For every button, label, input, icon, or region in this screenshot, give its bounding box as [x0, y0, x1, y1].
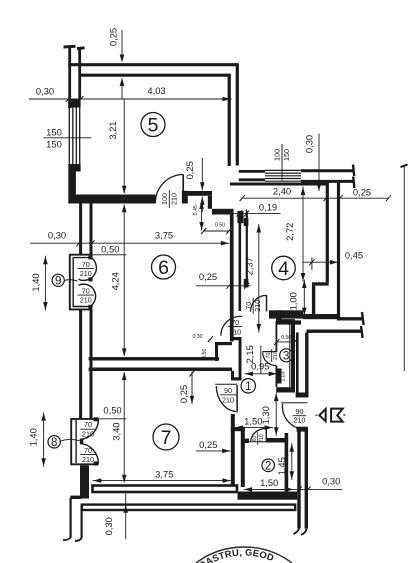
svg-text:0,30: 0,30: [103, 517, 114, 535]
dim line 0,25 room6: [196, 285, 251, 287]
wall left of window top: [239, 171, 265, 179]
svg-text:2,37: 2,37: [244, 257, 255, 275]
wall foot right1: [294, 528, 300, 535]
dim line 0.50 room3: [276, 341, 295, 343]
svg-text:2,40: 2,40: [273, 186, 291, 197]
wall foot left2: [75, 537, 82, 542]
wall room3 right: [291, 321, 295, 393]
wall left lower line2: [80, 505, 82, 538]
wall room7/hall right line: [241, 427, 245, 487]
dim line 0,19: [231, 210, 281, 221]
dim line 0,25 room7: [196, 450, 231, 452]
niche8 outer outline: [71, 419, 98, 464]
door room2 leaf: [265, 429, 267, 442]
wall U bottom left: [231, 371, 234, 381]
door room2 threshold: [249, 441, 267, 443]
dim vline 1,03 room3: [289, 324, 291, 388]
dim fraction bar 100/150 window: [281, 144, 283, 181]
wall corridor sill line: [230, 183, 326, 186]
arrows 1,50 room2: [244, 487, 252, 492]
wall room4 right inner: [326, 181, 329, 282]
svg-text:0,25: 0,25: [199, 271, 217, 282]
wall U bottom tab: [231, 377, 242, 380]
wall hall/room2 upper right line: [305, 333, 308, 393]
arrows 0,45 small: [199, 201, 204, 209]
wall band rooms 6/7 upper stroke: [89, 357, 219, 360]
window 150/150 left hatch: [69, 108, 79, 164]
svg-text:0,25: 0,25: [108, 28, 119, 46]
dim vline 0,45 small step: [201, 201, 203, 231]
svg-text:3,21: 3,21: [107, 121, 118, 139]
window 100/150 top hatch: [265, 170, 301, 181]
svg-text:0,50: 0,50: [103, 405, 121, 416]
door niche8 upper arc: [80, 419, 99, 439]
wall room3 left upper: [275, 321, 277, 352]
arrows 0,25 room5 door: [200, 182, 205, 190]
arrows 2,37: [257, 225, 262, 233]
arrows 1,45: [290, 444, 295, 452]
arrows 0,25 room6: [226, 283, 231, 289]
dim line 1,50 room2 + 0,30: [244, 488, 343, 490]
svg-text:8: 8: [51, 437, 57, 449]
svg-text:0,50: 0,50: [101, 244, 119, 255]
wall cap top-left: [64, 46, 85, 48]
door room3 leaf: [262, 351, 276, 353]
svg-text:90: 90: [296, 407, 304, 416]
arrow 0,30 window right: [317, 183, 322, 191]
wall jamb right of door 100/210: [182, 191, 188, 204]
svg-text:4,03: 4,03: [147, 85, 165, 96]
wall room2 top jamb: [243, 439, 249, 443]
label 70/210 room4 door rotated: [244, 298, 262, 314]
arrows 2,40: [240, 195, 245, 201]
stamp arc bottom: [178, 546, 310, 563]
niche8 inner left line: [75, 420, 77, 463]
svg-text:70: 70: [244, 302, 253, 310]
svg-text:210: 210: [80, 269, 92, 278]
arrow 3,21 down: [122, 186, 127, 194]
wall building right line2: [305, 428, 308, 529]
svg-text:0,25: 0,25: [178, 385, 189, 403]
neighbour building line right: [403, 166, 405, 372]
circle room7: [153, 424, 179, 450]
north/entrance arrow symbol: [319, 409, 342, 422]
dim vline 1,00: [303, 280, 305, 317]
niche8 jamb middle left: [80, 439, 83, 443]
svg-text:100: 100: [160, 193, 169, 205]
WALLS: [63, 46, 408, 541]
niche8 jamb bottom right: [94, 462, 99, 466]
dim vline 3,21 / 4,24 / 3,40 column: [123, 99, 125, 483]
svg-text:0,45: 0,45: [193, 205, 199, 215]
wall bottom band right: [238, 492, 298, 500]
label 70/210 room3 door rotated: [266, 349, 279, 362]
wall room2 top bar: [267, 438, 286, 443]
wall left middle double line a: [79, 310, 82, 419]
dim line 0,50 niche8: [99, 418, 127, 420]
leader circle8: [60, 439, 80, 441]
wall building right cap: [297, 427, 309, 431]
svg-text:0.50: 0.50: [202, 349, 208, 359]
svg-text:210: 210: [259, 434, 265, 443]
wall top of room 5 inner: [81, 75, 229, 166]
wall left outer line: [68, 48, 71, 109]
circle room8: [48, 436, 60, 448]
wall bottom band left: [93, 486, 238, 493]
tick small 0,30 hall: [208, 336, 213, 342]
svg-text:9: 9: [55, 276, 61, 288]
arrow 0,30 bottom up: [123, 505, 128, 513]
svg-text:0,45: 0,45: [345, 250, 363, 261]
svg-text:6: 6: [158, 257, 169, 279]
svg-text:0,30: 0,30: [322, 475, 340, 486]
wall room3 bottom jamb: [276, 369, 281, 384]
wall room3 left lower: [275, 366, 277, 388]
arrow 3,40 up: [122, 372, 127, 380]
label 100/150 window: [273, 144, 292, 166]
dim vline 1,45 room2: [291, 443, 293, 480]
wall cut line B right: [306, 330, 361, 333]
wall step 1: [186, 191, 212, 196]
wall room4 inner step: [312, 282, 329, 285]
svg-text:0.50: 0.50: [281, 335, 291, 341]
svg-text:3,40: 3,40: [110, 422, 121, 440]
arrow 3,40 down: [122, 475, 127, 483]
arrows 0,30 mid: [76, 240, 81, 246]
dim line 0,45 right: [303, 258, 340, 271]
dim line 0.50 small step: [203, 230, 229, 232]
arrows 1,00: [302, 280, 307, 288]
arrow 3,75 mid right: [221, 241, 229, 246]
door 100/210 room5 leaf: [182, 175, 184, 204]
arrows 1,40 niche8: [41, 413, 46, 421]
door room4 arc: [251, 295, 267, 311]
door niche9 upper arc: [79, 258, 97, 281]
wall block below window left: [68, 164, 80, 172]
svg-text:210: 210: [222, 395, 234, 404]
dim vline 0,25 hall left: [191, 372, 193, 405]
wall foot left1: [63, 536, 71, 540]
wall left lower line1: [69, 498, 71, 538]
wall room3 top jamb: [276, 310, 281, 321]
dim vline 1,40 niche8: [43, 412, 45, 467]
svg-text:210: 210: [273, 351, 279, 360]
svg-text:100: 100: [273, 149, 282, 161]
svg-text:210: 210: [169, 193, 178, 205]
wall room4 right outer: [337, 181, 340, 318]
svg-text:210: 210: [82, 430, 94, 439]
svg-text:4: 4: [278, 258, 289, 280]
wall C room4 left line: [246, 211, 248, 286]
wall left upper double line b: [90, 204, 93, 255]
dim line 2,40 / 0,25 right: [242, 197, 389, 199]
wall cut tick A: [362, 312, 364, 325]
arrow 0,25 top down: [120, 55, 125, 63]
wall left inner line: [78, 48, 81, 100]
wall block above window left: [68, 99, 80, 107]
wall room3 top: [276, 319, 295, 323]
DIMENSION LINES: [29, 30, 389, 539]
wall top of room 5 outer: [68, 65, 237, 166]
door hall-room7 opening line: [215, 383, 237, 385]
wall cut tick B: [361, 326, 363, 338]
dim vline 0,25 room5 door: [201, 158, 203, 212]
wall right of window top: [301, 171, 354, 182]
door hall-bottom arc: [282, 404, 295, 428]
wall elbow bottom left: [70, 496, 81, 499]
svg-text:210: 210: [229, 327, 241, 336]
circle room9: [52, 274, 64, 286]
svg-text:0.50: 0.50: [215, 222, 225, 228]
niche8 jamb top right: [94, 417, 99, 421]
svg-text:150: 150: [46, 139, 62, 150]
wall lower band: [82, 505, 295, 510]
door room6 arc: [221, 317, 239, 336]
svg-text:70: 70: [84, 446, 92, 455]
svg-text:210: 210: [294, 416, 306, 425]
wall left middle double line b: [90, 310, 93, 419]
wall B corridor/room4: [239, 211, 242, 311]
svg-text:1,40: 1,40: [30, 273, 41, 291]
svg-text:150: 150: [282, 149, 291, 161]
arrow 4,24 up: [122, 204, 127, 212]
door niche8 lower arc: [80, 444, 99, 464]
door room3 arc: [263, 352, 276, 365]
svg-text:210: 210: [82, 455, 94, 464]
wall hall/room2 upper left line: [296, 333, 299, 393]
label 60/210 room2 door rotated: [252, 432, 265, 445]
dim vline 2,37: [258, 224, 260, 333]
wall foot right2: [301, 529, 307, 536]
svg-text:150: 150: [46, 127, 62, 138]
svg-text:0,25: 0,25: [184, 161, 195, 179]
svg-text:1,00: 1,00: [288, 292, 299, 310]
dim line 0,30 + 3,75 mid: [30, 242, 229, 244]
wall U tab top: [231, 337, 242, 340]
svg-text:210: 210: [253, 300, 262, 312]
circle room4: [272, 256, 296, 280]
niche9 jamb top: [88, 256, 92, 260]
wall 1,00 band: [303, 314, 340, 319]
svg-text:0,30: 0,30: [36, 86, 54, 97]
wall left bar lower: [80, 465, 89, 498]
circle room6: [152, 255, 176, 279]
door room2 arc: [251, 428, 267, 441]
niche9 outer outline: [70, 255, 93, 310]
wall B top block: [237, 211, 243, 223]
wall step 2: [212, 209, 234, 215]
wall thin band below: [276, 320, 301, 324]
dim vline 0,30 bottom: [125, 494, 127, 540]
wall band rooms 6/7 lower stroke: [89, 368, 232, 372]
svg-text:5: 5: [148, 115, 159, 137]
dim line 0,25 top: [121, 30, 123, 99]
svg-text:1,03: 1,03: [281, 371, 287, 381]
svg-text:70: 70: [82, 287, 90, 296]
circle room3: [280, 349, 293, 362]
arrows 1,50 hall: [235, 425, 243, 430]
door hall-room7 arc: [216, 386, 235, 412]
arrow 4,24 down: [122, 348, 127, 356]
svg-text:0,19: 0,19: [259, 202, 277, 213]
svg-text:2,72: 2,72: [284, 223, 295, 241]
door room6 leaf stub: [238, 315, 242, 317]
wall U right stroke: [239, 337, 242, 379]
dim line 1,50 hall bottom: [235, 427, 273, 429]
svg-text:70: 70: [84, 420, 92, 429]
svg-text:0,25: 0,25: [353, 187, 371, 198]
wall cut line A right: [337, 317, 363, 320]
svg-text:0,30: 0,30: [304, 135, 315, 153]
label 100/210 room5 door: [160, 190, 179, 208]
arrow 4,03 right: [223, 97, 231, 102]
ARROWHEADS: [41, 55, 391, 513]
svg-text:3,75: 3,75: [155, 469, 173, 480]
circle room1: [241, 379, 255, 393]
dim line 0,50 niche9: [91, 254, 127, 256]
door niche9 lower arc: [79, 284, 96, 305]
svg-text:1: 1: [245, 381, 251, 393]
arrows 1,30: [274, 393, 279, 401]
arrows 0,30 room2 right: [297, 486, 302, 492]
svg-text:7: 7: [161, 427, 172, 449]
wall room5 bottom band: [68, 195, 155, 204]
arrows 2,72: [301, 187, 306, 195]
svg-text:70: 70: [231, 318, 239, 327]
svg-text:1,40: 1,40: [28, 428, 39, 446]
door hall-room7 leaf: [236, 385, 238, 412]
wall A corridor right: [230, 215, 234, 342]
dim vline 0,30 top right: [318, 134, 320, 192]
dim vline 1,40 niche9: [44, 256, 46, 311]
svg-text:1,30: 1,30: [260, 406, 271, 424]
svg-text:90: 90: [224, 386, 232, 395]
arrows 0,45: [309, 259, 314, 265]
arrow 0,25 hall left down: [190, 396, 195, 404]
arrows 0,25 top right: [337, 195, 342, 201]
wall room4 inner lower: [312, 284, 315, 317]
svg-text:0,30: 0,30: [192, 334, 202, 340]
door hall-bottom leaf: [296, 427, 308, 429]
svg-text:210: 210: [80, 296, 92, 305]
svg-text:3,75: 3,75: [155, 229, 173, 240]
leader circle9: [64, 280, 77, 282]
arrow 0,25 room7: [222, 449, 230, 454]
wall room4 bottom left block: [269, 310, 303, 318]
dim line 3,75 bottom: [93, 480, 231, 482]
wall hall/room2 cap: [296, 393, 309, 398]
door room4 leaf: [266, 295, 268, 311]
niche9 jamb middle: [88, 277, 92, 281]
wall room7/hall left line: [231, 414, 235, 487]
wall left upper double line a: [79, 204, 82, 255]
arrows 1,40 niche9: [43, 256, 48, 264]
wall U left stroke: [215, 342, 218, 361]
wall C top jamb: [244, 218, 249, 226]
arrows 0,19: [236, 211, 241, 217]
wall step down: [208, 196, 212, 209]
circle room2: [262, 459, 275, 472]
arrows 0,30 top: [66, 96, 71, 102]
arrows 0.50 room3: [274, 339, 279, 345]
wall bar left above room5 bottom: [68, 172, 76, 196]
circle room5: [141, 113, 165, 137]
niche9 jamb bottom: [88, 305, 92, 309]
wall room3 bottom: [276, 387, 295, 392]
door 100/210 room5 arc: [155, 175, 183, 204]
svg-text:70: 70: [82, 260, 90, 269]
dim vline 2,15 / 0,95: [245, 346, 278, 374]
svg-text:0,30: 0,30: [48, 229, 66, 240]
svg-text:3: 3: [283, 351, 289, 363]
arrows 3,75 bottom: [93, 478, 101, 483]
door hall-bottom opening line: [281, 402, 307, 404]
wall room7/hall cap: [231, 427, 245, 431]
svg-text:1,50: 1,50: [260, 477, 278, 488]
svg-text:1,45: 1,45: [276, 457, 287, 475]
svg-text:4,24: 4,24: [110, 272, 121, 290]
dim vline 1,30: [275, 393, 277, 436]
wall end ticks top right: [353, 165, 354, 189]
svg-text:0,25: 0,25: [199, 439, 217, 450]
dim vline 2,72: [302, 187, 304, 282]
dim fraction bar 150/150: [44, 137, 92, 139]
svg-text:0,95: 0,95: [251, 360, 269, 371]
wall room2 interior right bar: [285, 433, 289, 495]
wall building right line1: [297, 428, 300, 529]
niche9 inner outline: [73, 258, 91, 307]
dim line 0,30 + 4,03 top: [29, 98, 232, 100]
svg-text:2: 2: [265, 461, 271, 473]
arrows 0.50 small: [201, 228, 206, 234]
arrows 0,95: [245, 372, 253, 377]
wall U top stroke: [215, 342, 232, 345]
wall C bottom jamb: [244, 279, 249, 288]
neighbour tick: [401, 165, 408, 167]
